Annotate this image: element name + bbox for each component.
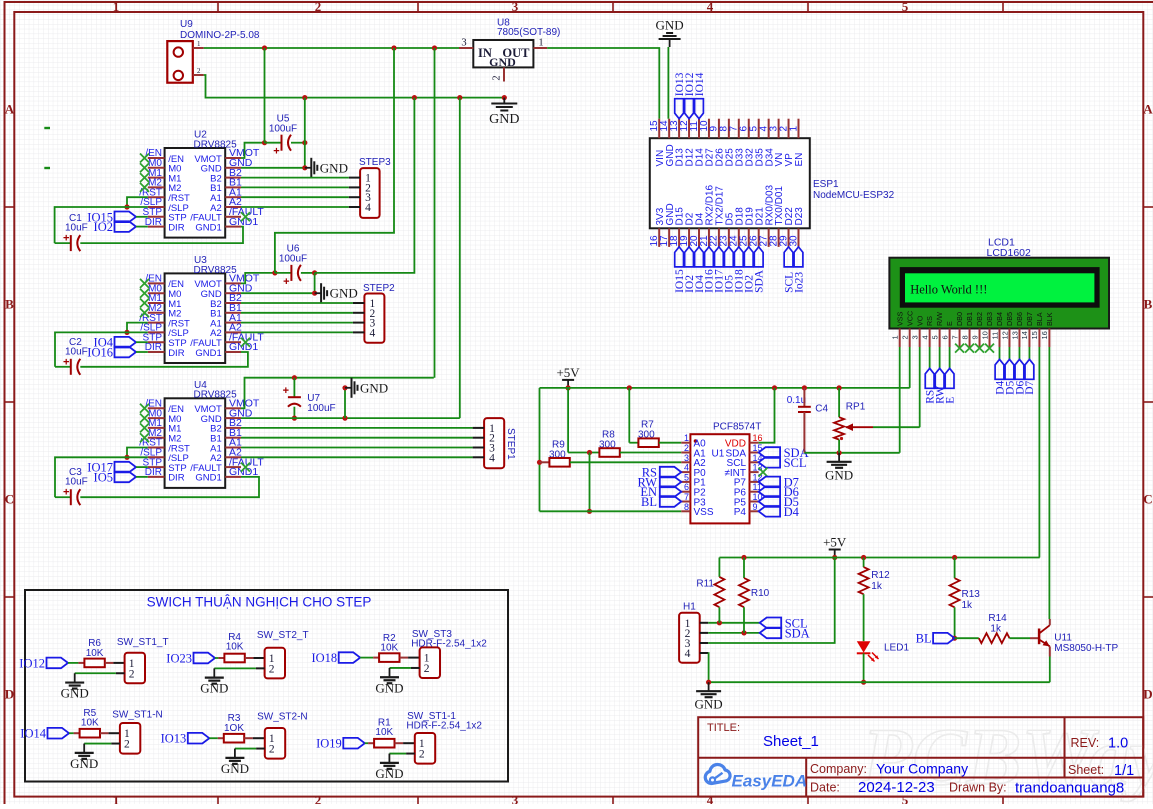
svg-text:DB0: DB0: [955, 312, 964, 326]
net flags D7 D6 D5 D4 at PCF P7-P4: [759, 477, 781, 488]
svg-text:A: A: [5, 102, 15, 117]
svg-text:ESP1: ESP1: [813, 179, 839, 190]
svg-text:IO23: IO23: [166, 652, 192, 666]
svg-text:E: E: [945, 321, 954, 326]
svg-text:IO2: IO2: [94, 220, 113, 234]
wire U4 /RST to /SLP: [127, 448, 148, 458]
svg-text:2: 2: [424, 663, 430, 675]
svg-text:6: 6: [684, 482, 689, 492]
svg-text:SWICH THUẬN NGHỊCH CHO STEP: SWICH THUẬN NGHỊCH CHO STEP: [147, 595, 372, 610]
svg-text:GND: GND: [320, 160, 348, 175]
svg-text:SDA: SDA: [785, 626, 810, 640]
wire GND drop to U5/U2 GND: [304, 98, 306, 168]
wire U4 /SLP to cap C3 rail: [55, 457, 148, 497]
capacitor U5 100uF: [262, 140, 267, 145]
svg-text:1: 1: [684, 433, 689, 443]
wire H1 pin1 to SCL flag: [708, 622, 760, 624]
header SW_ST1-1: [415, 733, 435, 764]
net flag IO13: [188, 733, 210, 744]
svg-text:15: 15: [1030, 331, 1039, 339]
svg-text:16: 16: [753, 433, 763, 443]
svg-text:30: 30: [788, 235, 799, 247]
net flag SCL at H1: [760, 618, 782, 629]
svg-text:4: 4: [365, 202, 371, 214]
svg-text:7805(SOT-89): 7805(SOT-89): [497, 27, 560, 38]
svg-text:DIR: DIR: [168, 348, 185, 359]
svg-text:6: 6: [940, 335, 949, 339]
U4 no-connect marks EN M0 M1 M2: [140, 404, 149, 413]
svg-text:GND1: GND1: [195, 348, 221, 359]
svg-text:4: 4: [685, 648, 691, 660]
net flags D4-D7 under LCD: [999, 347, 1001, 359]
svg-text:2: 2: [315, 793, 322, 805]
wire U2 VMOT up to U5: [241, 143, 265, 158]
svg-text:DB3: DB3: [985, 312, 994, 326]
wire LCD VCC down to +5V rail: [909, 347, 911, 388]
svg-text:BLA: BLA: [1035, 312, 1044, 326]
wire C2 to U3 GND1: [80, 352, 248, 367]
svg-text:+5V: +5V: [823, 535, 847, 550]
svg-text:IO19: IO19: [316, 737, 342, 751]
svg-text:4: 4: [707, 793, 714, 805]
svg-text:SW_ST2-N: SW_ST2-N: [257, 711, 308, 722]
svg-text:Drawn By:: Drawn By:: [949, 781, 1007, 795]
capacitor C2 10uF: [55, 366, 71, 368]
net flag IO4 to U3 STP: [115, 337, 137, 348]
svg-text:2: 2: [129, 668, 135, 680]
header STEP1 rotated: [484, 418, 504, 468]
U3 right pins: [225, 282, 241, 284]
svg-text:3: 3: [512, 793, 519, 805]
svg-text:BLK: BLK: [1045, 312, 1054, 326]
svg-text:GND: GND: [61, 686, 89, 701]
ground under SW_ST1-1: [380, 762, 399, 764]
wire SW_ST3 pin2 to ground: [411, 667, 420, 669]
svg-text:GND: GND: [200, 681, 228, 696]
ground symbol below 7805: [503, 98, 505, 104]
svg-text:1: 1: [113, 793, 120, 805]
svg-text:3: 3: [512, 0, 519, 14]
svg-text:2: 2: [269, 744, 275, 756]
svg-text:4: 4: [489, 452, 495, 464]
capacitor C1 10uF: [55, 242, 71, 244]
wire C3 to U4 GND1: [80, 477, 259, 497]
svg-text:1: 1: [891, 335, 900, 339]
net flag IO23: [194, 653, 216, 664]
svg-text:1: 1: [538, 38, 543, 49]
svg-text:1: 1: [113, 0, 120, 14]
wire +12V top bus: [204, 47, 459, 49]
wire U4 GND rail: [241, 417, 460, 419]
svg-text:2: 2: [269, 663, 275, 675]
svg-text:2: 2: [492, 75, 503, 80]
svg-text:C: C: [5, 492, 14, 507]
net flag SCL at PCF pin14: [759, 457, 781, 468]
IC U2 DRV8825 body: [165, 148, 226, 238]
svg-text:DB4: DB4: [995, 312, 1004, 326]
net flags below ESP1: [675, 247, 684, 267]
svg-text:GND1: GND1: [195, 222, 221, 233]
capacitor U6 100uF: [272, 270, 277, 275]
regulator U8 7805(SOT-89): [473, 40, 533, 67]
svg-text:9: 9: [753, 502, 758, 512]
svg-text:R11: R11: [696, 579, 714, 590]
svg-text:10uF: 10uF: [65, 477, 88, 488]
svg-text:E: E: [944, 397, 956, 404]
wire H1 pin2 to SDA flag: [708, 632, 760, 634]
wire H1 pin3 to +5V rail: [708, 558, 835, 644]
svg-text:10K: 10K: [81, 718, 99, 729]
header SW_ST3: [420, 647, 440, 678]
svg-text:GND: GND: [489, 112, 519, 127]
svg-text:IO14: IO14: [694, 72, 706, 96]
svg-text:GND: GND: [656, 18, 684, 33]
svg-text:C: C: [1143, 492, 1152, 507]
svg-text:GND: GND: [221, 761, 249, 776]
svg-text:13: 13: [1010, 331, 1019, 339]
ground flag at U2 GND: [305, 167, 312, 169]
svg-text:GND: GND: [489, 55, 516, 69]
svg-text:IO13: IO13: [161, 732, 187, 746]
IC U4 DRV8825 body: [165, 398, 226, 488]
svg-text:IO12: IO12: [19, 656, 45, 670]
svg-text:IO18: IO18: [311, 651, 337, 665]
svg-text:3: 3: [910, 335, 919, 339]
svg-text:1OK: 1OK: [224, 723, 244, 734]
title block frame: [698, 717, 1143, 796]
U4 no-connect mark on /FAULT: [241, 463, 250, 472]
svg-text:D: D: [5, 687, 14, 702]
net flag IO16 to U3 DIR: [115, 347, 137, 358]
svg-text:10K: 10K: [226, 642, 244, 653]
header STEP2: [364, 294, 384, 343]
header H1: [679, 613, 700, 663]
svg-text:VO: VO: [915, 315, 924, 326]
svg-text:10K: 10K: [375, 727, 393, 738]
RP1 wiper wire to LCD VO: [846, 426, 873, 428]
header SW_ST1-N: [120, 723, 140, 754]
net flag IO5 to U4 DIR: [115, 472, 137, 483]
svg-text:Sheet:: Sheet:: [1068, 763, 1104, 777]
wires U2 B2 B1 A1 A2 to STEP3: [241, 177, 349, 179]
svg-text:16: 16: [1040, 331, 1049, 339]
svg-text:BL: BL: [916, 632, 932, 646]
svg-text:4: 4: [684, 463, 689, 473]
svg-text:12: 12: [1000, 331, 1009, 339]
svg-text:3: 3: [461, 38, 466, 49]
svg-text:GND: GND: [695, 697, 723, 712]
VSS ground rail under PCF: [540, 510, 682, 512]
svg-text:+: +: [283, 385, 289, 397]
svg-text:2: 2: [900, 335, 909, 339]
svg-text:A: A: [1143, 102, 1153, 117]
U2 right pins: [225, 157, 241, 159]
svg-text:VCC: VCC: [905, 311, 914, 326]
svg-text:100uF: 100uF: [279, 254, 307, 265]
svg-text:H1: H1: [683, 602, 696, 613]
svg-text:DB7: DB7: [1025, 312, 1034, 326]
net flag IO12: [47, 658, 69, 669]
svg-text:D7: D7: [1024, 380, 1036, 394]
U4 right pins: [225, 407, 241, 409]
net flag BL: [933, 633, 955, 644]
ground under SW_ST3: [380, 676, 399, 678]
svg-text:+: +: [63, 233, 69, 245]
wire C1 to U2 GND1: [80, 227, 243, 244]
svg-text:8: 8: [960, 335, 969, 339]
svg-text:U9: U9: [180, 19, 193, 30]
wire SW_ST1_T pin2 to ground: [116, 672, 125, 674]
wire SW_ST2-N pin2 to ground: [256, 748, 265, 750]
svg-text:2: 2: [124, 739, 130, 751]
net flags IO13 IO12 IO14 above ESP1: [675, 99, 684, 119]
wire SW_ST2_T pin2 to ground: [256, 667, 265, 669]
ground under SW_ST1_T: [65, 681, 84, 683]
svg-text:Your Company: Your Company: [876, 761, 968, 777]
svg-text:D4: D4: [784, 505, 800, 519]
LED1: [857, 641, 871, 652]
svg-text:Date:: Date:: [810, 781, 840, 795]
svg-text:1: 1: [788, 126, 799, 132]
resistor R8 300: [567, 388, 569, 453]
svg-text:R13: R13: [962, 589, 981, 600]
svg-text:U11: U11: [1054, 633, 1072, 644]
resistor R7 300: [628, 388, 630, 443]
svg-text:LED1: LED1: [884, 643, 909, 654]
svg-text:2: 2: [197, 67, 201, 75]
U3 no-connect marks EN M0 M1 M2: [140, 279, 149, 288]
ground flag near U7: [342, 416, 347, 421]
wire U11 emitter to ground rail: [1049, 657, 1051, 683]
wire SW_ST1-N pin2 to ground: [111, 743, 120, 745]
header SW_ST2-N: [265, 728, 285, 759]
svg-text:TITLE:: TITLE:: [707, 722, 740, 734]
svg-text:9: 9: [970, 335, 979, 339]
svg-text:RS: RS: [925, 316, 934, 326]
svg-text:2: 2: [315, 0, 322, 14]
svg-text:11: 11: [990, 332, 999, 340]
wire H1 pin4 to ground rail: [707, 653, 709, 682]
svg-text:D: D: [1143, 687, 1152, 702]
net flag SDA at PCF pin15: [759, 447, 781, 458]
wire 7805 OUT to ESP32 VIN: [547, 48, 659, 119]
switch section box: [25, 590, 508, 782]
+5V rail in PCF region: [540, 387, 910, 389]
stray wire stub marks left: [44, 127, 50, 129]
svg-text:DB5: DB5: [1005, 312, 1014, 326]
net flag IO18: [339, 652, 361, 663]
svg-text:+: +: [63, 356, 69, 368]
wire PCF VDD to +5V rail: [759, 388, 775, 443]
U2 left pins: [148, 157, 165, 159]
header STEP3: [360, 168, 380, 218]
svg-text:DB2: DB2: [975, 312, 984, 326]
svg-text:SDA: SDA: [754, 269, 766, 293]
junction on +12V bus: [262, 45, 267, 50]
net flags RS RW E under LCD: [929, 347, 931, 368]
ground under SW_ST1-N: [75, 752, 94, 754]
svg-text:5: 5: [902, 0, 909, 14]
IC U3 DRV8825 body: [165, 273, 226, 363]
PCF8574T left pins: [681, 442, 690, 444]
svg-text:2024-12-23: 2024-12-23: [858, 779, 935, 796]
svg-text:7: 7: [950, 335, 959, 339]
svg-text:IO5: IO5: [94, 470, 113, 484]
header SW_ST2_T: [265, 648, 285, 679]
svg-text:SW_ST2_T: SW_ST2_T: [257, 630, 309, 641]
svg-text:10uF: 10uF: [65, 223, 88, 234]
svg-text:DB6: DB6: [1015, 312, 1024, 326]
svg-text:R14: R14: [988, 613, 1007, 624]
svg-text:B: B: [5, 297, 14, 312]
svg-text:+: +: [283, 276, 289, 288]
svg-text:RP1: RP1: [846, 402, 866, 413]
U2 no-connect mark on /FAULT: [241, 212, 250, 221]
wire U2 /RST to /SLP: [127, 197, 148, 207]
svg-text:SCL: SCL: [784, 456, 807, 470]
svg-text:GND: GND: [70, 756, 98, 771]
svg-text:MS8050-H-TP: MS8050-H-TP: [1054, 643, 1118, 654]
svg-text:SW_ST1-N: SW_ST1-N: [112, 709, 163, 720]
svg-text:7: 7: [684, 492, 689, 502]
svg-text:1.0: 1.0: [1108, 736, 1128, 752]
svg-text:1/1: 1/1: [1114, 763, 1134, 779]
no-connect mark PCF INT pin: [759, 468, 768, 477]
svg-text:+: +: [63, 487, 69, 499]
wire U3 /RST to /SLP: [127, 323, 148, 333]
wire ESP1 GND pin to ground: [667, 47, 669, 119]
wire SW_ST1-1 pin2 to ground: [406, 753, 415, 755]
wire U3 /SLP to cap C2 rail: [55, 332, 148, 366]
svg-text:REV:: REV:: [1071, 736, 1100, 750]
junctions on GND bus: [302, 95, 307, 100]
svg-text:2: 2: [419, 749, 425, 761]
ground flag bottom right rail: [708, 682, 710, 691]
svg-text:+: +: [273, 146, 279, 158]
svg-text:GND: GND: [375, 766, 403, 781]
U4 left pins: [148, 407, 165, 409]
svg-text:100uF: 100uF: [269, 124, 297, 135]
header SW_ST1_T: [125, 653, 145, 684]
svg-text:Io23: Io23: [793, 272, 805, 293]
svg-text:VSS: VSS: [694, 507, 714, 518]
svg-text:PCF8574T: PCF8574T: [713, 422, 761, 433]
svg-text:IO16: IO16: [87, 346, 113, 360]
svg-text:DOMINO-2P-5.08: DOMINO-2P-5.08: [180, 30, 260, 41]
net flag IO15 to U2 STP: [115, 212, 137, 223]
wire LCD BLK down to U11 collector: [1048, 347, 1050, 619]
svg-text:STEP2: STEP2: [363, 283, 395, 294]
wire U3 VMOT up to U6: [241, 273, 275, 284]
svg-text:4: 4: [370, 327, 376, 339]
ground rail bottom right: [709, 681, 1050, 683]
wire +12V drop to U7 rail: [434, 48, 436, 378]
svg-text:4: 4: [707, 0, 714, 14]
wire GND bus from U9 pin2: [204, 75, 505, 98]
svg-text:R10: R10: [751, 588, 770, 599]
svg-text:14: 14: [1020, 331, 1029, 339]
svg-text:HDR-F-2.54_1x2: HDR-F-2.54_1x2: [406, 720, 482, 731]
svg-text:Sheet_1: Sheet_1: [763, 733, 819, 750]
svg-text:DIR: DIR: [168, 222, 185, 233]
connector U9 DOMINO-2P-5.08: [167, 41, 193, 83]
svg-text:1: 1: [197, 40, 201, 48]
svg-text:10K: 10K: [380, 643, 398, 654]
svg-text:10: 10: [980, 331, 989, 339]
wire LCD BLA down to +5V rail: [1038, 347, 1040, 558]
wire U2 GND pin: [241, 167, 305, 169]
svg-text:D23: D23: [794, 207, 805, 226]
ground rail right of PCF: [804, 452, 899, 454]
svg-text:HDR-F-2.54_1x2: HDR-F-2.54_1x2: [411, 639, 487, 650]
wire LCD VO down to RP1 wiper: [919, 347, 921, 427]
svg-text:P4: P4: [734, 507, 747, 518]
net flag IO17 to U4 STP: [115, 462, 137, 473]
svg-text:BL: BL: [641, 495, 657, 509]
svg-text:1k: 1k: [962, 600, 974, 611]
wire U4 VMOT up to U7 rail: [241, 378, 434, 409]
svg-text:2: 2: [684, 443, 689, 453]
capacitor U7 100uF vertical: [292, 375, 297, 380]
svg-text:SW_ST1_T: SW_ST1_T: [117, 637, 169, 648]
svg-text:C4: C4: [815, 404, 828, 415]
U3 no-connect mark on /FAULT: [241, 338, 250, 347]
ground under SW_ST2_T: [205, 677, 224, 679]
svg-text:GND: GND: [375, 680, 403, 695]
wire GND bus drop to U7 rail: [459, 98, 461, 419]
svg-text:Company:: Company:: [810, 762, 867, 776]
svg-text:1k: 1k: [871, 581, 883, 592]
svg-text:10K: 10K: [86, 648, 104, 659]
wire LCD VSS down to ground rail: [899, 347, 901, 453]
svg-text:0.1u: 0.1u: [787, 395, 806, 406]
transistor U11 MS8050-H-TP: [1038, 629, 1041, 645]
+5V power flag transistor region: [834, 550, 836, 558]
wires U3 B2 B1 A1 A2 to STEP2: [241, 302, 353, 304]
svg-text:Hello World !!!: Hello World !!!: [910, 283, 987, 297]
net flags RS RW EN BL to PCF P0-P3: [660, 467, 682, 478]
svg-text:5: 5: [684, 472, 689, 482]
PCF8574T right pins: [750, 442, 759, 444]
ground flag below RP1: [838, 453, 840, 462]
svg-text:5: 5: [930, 335, 939, 339]
svg-text:STEP3: STEP3: [359, 157, 391, 168]
svg-text:B: B: [1144, 297, 1153, 312]
net flag IO19: [343, 738, 365, 749]
+5V rail transistor region: [719, 557, 1039, 559]
svg-text:U1: U1: [712, 448, 725, 459]
wire U3 GND pin: [241, 292, 315, 294]
net flag IO2 to U2 DIR: [115, 221, 137, 232]
svg-text:NodeMCU-ESP32: NodeMCU-ESP32: [813, 190, 895, 201]
wire U2 /SLP to cap C1 rail: [55, 207, 148, 243]
wire R8 junction to VSS rail: [589, 453, 591, 512]
U3 left pins: [148, 282, 165, 284]
svg-text:EasyEDA: EasyEDA: [732, 772, 808, 791]
svg-text:100uF: 100uF: [307, 403, 335, 414]
svg-text:IO14: IO14: [20, 727, 46, 741]
svg-text:GND: GND: [330, 286, 358, 301]
svg-text:DB1: DB1: [965, 312, 974, 326]
ground under SW_ST2-N: [225, 757, 244, 759]
svg-text:GND1: GND1: [195, 473, 221, 484]
IC U1 PCF8574T body: [690, 434, 749, 523]
svg-text:R/W: R/W: [935, 312, 944, 326]
net flag SDA at H1: [760, 628, 782, 639]
U2 no-connect marks EN M0 M1 M2: [140, 154, 149, 163]
svg-text:GND: GND: [360, 380, 388, 395]
net flag IO14: [48, 728, 70, 739]
